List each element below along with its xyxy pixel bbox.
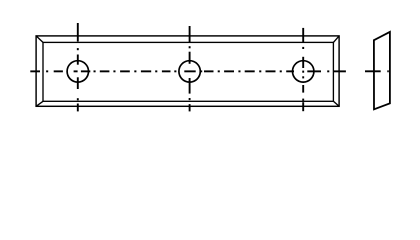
hole 1 circle (67, 61, 88, 82)
side view centerline dash (365, 70, 381, 72)
chamfer diagonal top-right corner (333, 36, 339, 43)
side view centerline dot (387, 70, 389, 72)
side view outline (thickness profile) (374, 32, 390, 109)
hole 2 circle (179, 61, 200, 82)
hole 3 vertical centerline (302, 28, 304, 111)
plate outer outline (front view) (36, 36, 339, 106)
horizontal dash-dot centerline (30, 70, 346, 72)
chamfer diagonal top-left corner (36, 36, 43, 43)
chamfer diagonal bottom-left corner (36, 101, 43, 106)
chamfer diagonal bottom-right corner (333, 101, 339, 106)
hole 3 circle (293, 61, 314, 82)
hole 1 vertical centerline (77, 23, 79, 111)
plate inner outline (chamfer edge) (43, 42, 333, 101)
hole 2 vertical centerline (189, 26, 191, 111)
